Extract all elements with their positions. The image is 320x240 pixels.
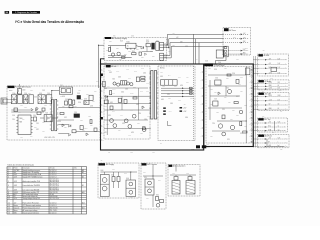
svg-text:1102: 1102 bbox=[96, 81, 99, 83]
svg-text:500 480 460: 500 480 460 bbox=[50, 196, 58, 198]
svg-text:7216: 7216 bbox=[212, 123, 215, 125]
svg-text:GND: GND bbox=[269, 85, 272, 87]
svg-text:6208: 6208 bbox=[88, 116, 91, 118]
svg-text:0V: 0V bbox=[278, 85, 280, 87]
svg-text:6444: 6444 bbox=[107, 86, 110, 88]
svg-text:+3V3: +3V3 bbox=[269, 72, 273, 74]
svg-text:3801: 3801 bbox=[233, 37, 236, 39]
resistor R3223 bbox=[234, 102, 238, 104]
svg-text:3453: 3453 bbox=[140, 133, 143, 135]
wire B3 rail 5 bbox=[212, 130, 240, 132]
svg-text:5446: 5446 bbox=[178, 77, 181, 79]
svg-text:6212: 6212 bbox=[216, 112, 219, 114]
svg-text:33V: 33V bbox=[243, 41, 246, 43]
svg-text:94,5 94,3 94,1: 94,5 94,3 94,1 bbox=[50, 189, 59, 191]
svg-text:5601: 5601 bbox=[130, 197, 133, 199]
tuner box title tag bbox=[224, 28, 236, 32]
svg-text:5,0V: 5,0V bbox=[278, 138, 281, 140]
svg-text:B3 Small Signal: B3 Small Signal bbox=[214, 65, 225, 67]
svg-text:0V: 0V bbox=[196, 59, 198, 61]
svg-text:7121: 7121 bbox=[56, 114, 59, 116]
scattered reference labels bbox=[12, 34, 243, 136]
capacitor C2455 bbox=[110, 106, 113, 110]
sub-module B3 title tag bbox=[205, 63, 226, 66]
svg-text:3462: 3462 bbox=[190, 98, 193, 100]
A20 bridge rectifier block bbox=[100, 175, 109, 197]
IC 7205 box bbox=[215, 80, 221, 85]
module box A21 degauss panel (dashed) bbox=[141, 163, 166, 209]
svg-text:+200V: +200V bbox=[14, 192, 18, 194]
power supply title tag bbox=[8, 86, 31, 89]
supply line 3 to tuner bbox=[223, 41, 249, 43]
diode D6222 bbox=[218, 92, 220, 95]
svg-text:+26V: +26V bbox=[183, 108, 186, 110]
A5 side board title tag bbox=[258, 54, 269, 57]
A7 audio board supply row +26V bbox=[253, 82, 288, 84]
supply line 1 to tuner bbox=[223, 33, 249, 35]
svg-text:3207b: 3207b bbox=[84, 128, 88, 130]
svg-text:7445: 7445 bbox=[112, 79, 115, 81]
svg-text:2110: 2110 bbox=[12, 119, 15, 121]
svg-text:14: 14 bbox=[8, 208, 10, 210]
A20 stub wires bbox=[105, 172, 131, 180]
A10 CRT panel supply row +12V bbox=[253, 99, 288, 101]
wire TC rail 2 bbox=[108, 55, 126, 57]
svg-text:5445: 5445 bbox=[160, 76, 163, 78]
fuse 1100 bbox=[17, 86, 25, 94]
A21 vertical wire top bbox=[152, 165, 154, 179]
wire B3 rail 3 bbox=[208, 85, 246, 87]
resistor R3449 bbox=[133, 97, 137, 99]
svg-text:6112: 6112 bbox=[36, 129, 39, 131]
capacitor C2224 bbox=[222, 115, 225, 119]
mains input connector bbox=[1, 98, 7, 104]
svg-text:2105: 2105 bbox=[47, 93, 50, 95]
svg-text:6600: 6600 bbox=[101, 170, 104, 172]
svg-text:6446: 6446 bbox=[120, 115, 123, 117]
A12 internal wire bbox=[273, 121, 275, 131]
svg-text:5441: 5441 bbox=[128, 78, 131, 80]
svg-text:Tabela das tensões de alimenta: Tabela das tensões de alimentação bbox=[7, 164, 34, 167]
connector 1752 bbox=[160, 53, 168, 60]
resistor R3440 bbox=[103, 81, 106, 87]
distribution box A5 side board (dashed) bbox=[258, 54, 289, 76]
svg-text:7521: 7521 bbox=[118, 52, 121, 54]
svg-text:2104: 2104 bbox=[94, 91, 97, 93]
A21 rail wire bbox=[143, 175, 163, 177]
svg-text:5200: 5200 bbox=[50, 97, 53, 99]
svg-text:12: 12 bbox=[8, 202, 10, 204]
svg-text:3442: 3442 bbox=[109, 72, 112, 74]
transistor Q7451 bbox=[113, 124, 117, 128]
table multiline voltages bbox=[50, 179, 59, 191]
connector 1751 bbox=[160, 42, 168, 50]
diode D6115 in supply bbox=[62, 124, 64, 127]
svg-text:SCL: SCL bbox=[268, 126, 271, 128]
rectifier diode row 1 bbox=[161, 87, 194, 89]
power supply module box (dashed outline) bbox=[7, 86, 100, 140]
left board edge pin numbers bbox=[101, 70, 105, 142]
svg-text:6113: 6113 bbox=[20, 137, 23, 139]
capacitor C2210 bbox=[246, 68, 250, 75]
module A8 title tag bbox=[105, 37, 127, 40]
R-box row value labels bbox=[278, 58, 281, 147]
svg-text:2453: 2453 bbox=[137, 123, 140, 125]
svg-text:2206: 2206 bbox=[232, 73, 235, 75]
svg-text:+3V3: +3V3 bbox=[14, 177, 18, 179]
wire B3 vertical 3 bbox=[225, 86, 227, 96]
svg-text:2205: 2205 bbox=[86, 94, 89, 96]
svg-text:3202: 3202 bbox=[208, 68, 211, 70]
resistor R3220 bbox=[227, 74, 231, 76]
wire primary ground rail bbox=[11, 111, 44, 113]
svg-text:+200V: +200V bbox=[278, 90, 282, 92]
svg-text:6460: 6460 bbox=[160, 72, 163, 74]
A7 audio board supply row +13V bbox=[253, 88, 288, 90]
wire drop to main board node C bbox=[198, 43, 200, 64]
svg-text:2452: 2452 bbox=[122, 123, 125, 125]
A20 title tag bbox=[99, 163, 115, 166]
wire B3 vertical main bbox=[245, 67, 247, 144]
svg-text:1753: 1753 bbox=[172, 45, 175, 47]
transistor Q7225 bbox=[239, 110, 243, 114]
A14 stepped wire bbox=[267, 139, 284, 147]
svg-text:2106: 2106 bbox=[60, 96, 63, 98]
svg-text:5,0V: 5,0V bbox=[278, 122, 281, 124]
wire B3 top rail bbox=[208, 74, 246, 76]
svg-text:6106: 6106 bbox=[78, 90, 81, 92]
driver transformer T5440 bbox=[120, 81, 126, 85]
wire +5V run to connector bbox=[164, 34, 224, 45]
wire connector return drop bbox=[216, 57, 227, 64]
A20 capacitor C1 bbox=[112, 177, 115, 189]
vertical supply bus wire 2 bbox=[255, 56, 257, 148]
supply line 2 to tuner bbox=[223, 37, 249, 39]
snubber resistor R3201 bbox=[73, 100, 75, 104]
svg-text:3120: 3120 bbox=[58, 121, 61, 123]
svg-text:+5V: +5V bbox=[268, 138, 271, 140]
svg-text:I²C e Vista Geral das Tensões: I²C e Vista Geral das Tensões de Aliment… bbox=[15, 20, 84, 24]
A12 top control supply row SDA bbox=[253, 128, 286, 131]
svg-text:6117: 6117 bbox=[42, 131, 45, 133]
secondary rail wire bbox=[58, 107, 100, 109]
A20 relay block bbox=[126, 180, 136, 197]
resistor R3211 bbox=[243, 131, 247, 133]
svg-text:2602: 2602 bbox=[124, 173, 127, 175]
svg-text:6443: 6443 bbox=[118, 77, 121, 79]
svg-text:+8V: +8V bbox=[269, 58, 272, 60]
svg-text:5520: 5520 bbox=[156, 40, 159, 42]
svg-text:6461: 6461 bbox=[161, 99, 164, 101]
electrolytic capacitor C2120 bbox=[74, 114, 80, 118]
svg-text:3460: 3460 bbox=[185, 117, 188, 119]
svg-text:200 198 196: 200 198 196 bbox=[50, 192, 58, 194]
left board right edge pin numbers bbox=[201, 72, 204, 138]
svg-text:1100: 1100 bbox=[22, 90, 25, 92]
svg-text:7211: 7211 bbox=[240, 91, 243, 93]
filter capacitor C2101 bbox=[29, 95, 33, 104]
svg-text:2521: 2521 bbox=[106, 50, 109, 52]
svg-text:6450: 6450 bbox=[180, 85, 183, 87]
svg-text:+13V: +13V bbox=[183, 111, 186, 113]
A14 front panel title tag bbox=[258, 135, 272, 138]
svg-text:G2: G2 bbox=[269, 104, 271, 106]
wire B1 rail 4 bbox=[104, 103, 151, 105]
capacitor C2115 bbox=[80, 126, 83, 130]
svg-text:3102: 3102 bbox=[24, 107, 27, 109]
svg-text:6520: 6520 bbox=[120, 41, 123, 43]
svg-text:1411: 1411 bbox=[104, 132, 107, 134]
resistor R3445 bbox=[141, 76, 145, 78]
A21 resistor bbox=[156, 197, 159, 201]
transistor Q7210 bbox=[227, 89, 231, 93]
svg-text:15: 15 bbox=[8, 210, 10, 212]
svg-text:+5V: +5V bbox=[243, 33, 246, 35]
A21 title tag bbox=[142, 163, 158, 166]
mains filter choke L5100 bbox=[11, 95, 16, 104]
svg-text:5600: 5600 bbox=[126, 178, 129, 180]
wire B1 rail 2 bbox=[104, 109, 151, 111]
diode D6108 bbox=[36, 109, 38, 111]
board edge connector tag 1408 bbox=[100, 74, 103, 77]
A5 side board supply row +3V3 bbox=[253, 72, 287, 74]
svg-text:3521: 3521 bbox=[116, 48, 119, 50]
svg-text:+8V6: +8V6 bbox=[199, 46, 202, 48]
svg-text:1505: 1505 bbox=[240, 77, 243, 79]
svg-text:0V: 0V bbox=[278, 108, 280, 110]
capacitor C2221 bbox=[236, 80, 239, 84]
svg-text:3205: 3205 bbox=[80, 120, 83, 122]
svg-text:+95V +26V +13V: +95V +26V +13V bbox=[44, 137, 55, 139]
svg-text:1504: 1504 bbox=[218, 62, 221, 64]
transistor Q7448 bbox=[130, 83, 133, 86]
svg-text:2468: 2468 bbox=[178, 100, 181, 102]
svg-text:+45V: +45V bbox=[183, 104, 186, 106]
svg-text:5V6: 5V6 bbox=[113, 35, 116, 37]
module box A22 speakers (dashed) bbox=[168, 165, 200, 197]
svg-text:12,0 12,0 33,0: 12,0 12,0 33,0 bbox=[50, 198, 59, 200]
svg-text:LED: LED bbox=[280, 149, 283, 151]
svg-text:12V: 12V bbox=[280, 111, 282, 113]
svg-text:sda: sda bbox=[278, 129, 280, 131]
diode D6526 bbox=[145, 53, 147, 55]
secondary diode D6210 bbox=[69, 125, 71, 128]
capacitor C2450 bbox=[118, 98, 121, 102]
A10 CRT panel supply row GND bbox=[253, 108, 288, 110]
wire B2 L-shaped bbox=[167, 121, 171, 125]
svg-text:A8 Stand-by Supply: A8 Stand-by Supply bbox=[112, 37, 127, 40]
capacitor C2125 bbox=[94, 128, 97, 131]
svg-text:7540: 7540 bbox=[104, 62, 107, 64]
diode D6116 bbox=[86, 133, 88, 136]
A10 CRT panel title tag bbox=[258, 93, 271, 96]
svg-text:3208: 3208 bbox=[238, 84, 241, 86]
svg-text:2216: 2216 bbox=[240, 133, 243, 135]
page number box bbox=[5, 11, 10, 14]
transformer pin stubs bbox=[149, 73, 158, 118]
svg-text:26,2 25,9 25,7: 26,2 25,9 25,7 bbox=[50, 184, 59, 186]
distribution box A10 CRT panel (dashed) bbox=[258, 92, 290, 110]
svg-text:+26V: +26V bbox=[14, 185, 17, 187]
distribution box A12 top control (dashed) bbox=[257, 118, 287, 132]
svg-text:2207: 2207 bbox=[226, 78, 229, 80]
svg-text:Mains: Mains bbox=[14, 210, 18, 212]
svg-text:2214: 2214 bbox=[224, 97, 227, 99]
svg-text:5210: 5210 bbox=[230, 119, 233, 121]
A14 front panel supply row LED bbox=[253, 145, 288, 147]
A7 audio board title tag bbox=[258, 80, 271, 83]
svg-text:2451: 2451 bbox=[167, 94, 170, 96]
svg-text:6100: 6100 bbox=[39, 93, 42, 95]
transistor Q7453 bbox=[128, 125, 132, 129]
svg-text:220 - 240V~: 220 - 240V~ bbox=[50, 210, 58, 212]
coil X symbol in filter L5101 bbox=[24, 95, 28, 104]
svg-text:+8V: +8V bbox=[14, 172, 17, 174]
wire B3 rail 2 bbox=[217, 120, 246, 122]
svg-text:3207: 3207 bbox=[236, 96, 239, 98]
section header bar bbox=[12, 11, 40, 14]
svg-text:6462: 6462 bbox=[162, 86, 165, 88]
svg-text:3447: 3447 bbox=[133, 87, 136, 89]
svg-text:26,5kV: 26,5kV bbox=[50, 194, 55, 196]
svg-text:+8V: +8V bbox=[176, 37, 178, 39]
resistor R3525 bbox=[122, 57, 126, 59]
svg-text:+5V2: +5V2 bbox=[14, 174, 18, 176]
transistor Q7216 bbox=[230, 125, 234, 129]
svg-text:+8V: +8V bbox=[243, 37, 246, 39]
svg-text:3446: 3446 bbox=[146, 91, 149, 93]
capacitor C2445 bbox=[136, 77, 139, 82]
svg-text:5440: 5440 bbox=[125, 89, 128, 91]
transistor Q7445 line driver bbox=[113, 82, 116, 85]
A22 title tag bbox=[169, 165, 186, 168]
B3 labels bbox=[214, 78, 230, 142]
svg-text:3100: 3100 bbox=[12, 115, 15, 117]
svg-text:2600: 2600 bbox=[111, 175, 114, 177]
wire B3 rail bbox=[210, 95, 240, 97]
B1 component labels bbox=[108, 79, 141, 135]
svg-text:1754: 1754 bbox=[168, 51, 171, 53]
svg-text:10: 10 bbox=[8, 196, 10, 198]
svg-text:2113: 2113 bbox=[36, 123, 39, 125]
svg-text:+141V: +141V bbox=[168, 111, 172, 113]
svg-text:G2: G2 bbox=[14, 196, 16, 198]
svg-text:6455: 6455 bbox=[131, 132, 134, 134]
distribution box to tuner board (dashed) bbox=[223, 27, 251, 55]
line output transformer T5445 primary bar bbox=[151, 71, 153, 120]
filter capacitor C2461 bbox=[163, 110, 166, 112]
A12 top control title tag bbox=[258, 118, 270, 121]
wire mains neutral bbox=[7, 102, 11, 104]
svg-text:1401: 1401 bbox=[207, 147, 210, 149]
svg-text:5521: 5521 bbox=[146, 40, 149, 42]
svg-text:0,0 0,0 0,0: 0,0 0,0 0,0 bbox=[50, 213, 57, 215]
diode D6107 bbox=[31, 109, 33, 111]
page title bbox=[15, 20, 84, 24]
svg-text:3452: 3452 bbox=[106, 124, 109, 126]
svg-text:GND: GND bbox=[185, 46, 188, 48]
svg-text:GND: GND bbox=[270, 78, 273, 80]
module box A8 standby supply (dashed outline) bbox=[104, 38, 167, 61]
resistor R3124 bbox=[90, 120, 92, 124]
svg-text:13: 13 bbox=[8, 205, 10, 207]
svg-text:2443: 2443 bbox=[112, 93, 115, 95]
extra tiny reference labels pass 3 bbox=[22, 49, 247, 133]
choke L5520 bbox=[156, 42, 159, 51]
transistor Q7447 bbox=[126, 82, 129, 85]
wire standby run to connector bbox=[164, 43, 224, 56]
svg-text:6207: 6207 bbox=[74, 106, 77, 108]
sub-module B1 line deflection (dashed) bbox=[104, 66, 150, 139]
A12 top control supply row SCL bbox=[253, 126, 286, 128]
svg-text:5,0V: 5,0V bbox=[278, 63, 281, 65]
svg-text:1503: 1503 bbox=[205, 61, 208, 63]
secondary capacitor C2212 bbox=[72, 130, 76, 133]
svg-text:2116: 2116 bbox=[34, 127, 37, 129]
svg-text:3610: 3610 bbox=[156, 195, 159, 197]
T5200 pin stubs bbox=[50, 101, 59, 129]
wire drop to main board node A bbox=[192, 34, 194, 64]
wire standby rail inside module bbox=[108, 46, 141, 58]
svg-text:pins: pins bbox=[22, 119, 25, 121]
svg-text:3110: 3110 bbox=[33, 115, 36, 117]
wire drop to main board node B bbox=[195, 39, 197, 64]
mains filter choke L5101 bbox=[24, 95, 28, 104]
diode D6521 bbox=[141, 46, 144, 49]
wire junction dots bbox=[51, 44, 247, 176]
wire B1 vertical bbox=[106, 96, 108, 135]
svg-text:+13V: +13V bbox=[269, 88, 272, 90]
svg-text:3200: 3200 bbox=[78, 102, 81, 104]
svg-text:3203: 3203 bbox=[80, 99, 83, 101]
bottom edge connector tag 1400 bbox=[192, 145, 201, 150]
wire B3 rail 4 bbox=[208, 107, 242, 109]
A20 labels bbox=[101, 170, 130, 180]
A7 audio board supply row GND bbox=[253, 85, 288, 87]
svg-text:6522: 6522 bbox=[128, 51, 131, 53]
sub-module B1 title tag bbox=[106, 65, 117, 68]
transistor Q7455 bbox=[142, 128, 146, 132]
svg-text:Degauss: Degauss bbox=[14, 208, 20, 210]
svg-text:11: 11 bbox=[8, 198, 10, 200]
A14 front panel supply row +5V bbox=[253, 138, 288, 140]
rectifier diode row 3 bbox=[161, 93, 194, 95]
svg-text:+5V: +5V bbox=[268, 122, 271, 124]
svg-text:3461: 3461 bbox=[168, 98, 171, 100]
svg-text:26V: 26V bbox=[278, 82, 280, 84]
svg-text:2466: 2466 bbox=[186, 82, 189, 84]
svg-text:6445: 6445 bbox=[146, 83, 149, 85]
sub-module B2 EHT secondary (dashed) bbox=[158, 66, 195, 141]
svg-text:13V: 13V bbox=[278, 88, 280, 90]
svg-text:2454: 2454 bbox=[118, 130, 121, 132]
speaker LS1 bbox=[172, 165, 180, 195]
svg-text:+95V: +95V bbox=[14, 189, 17, 191]
IC 7220 box bbox=[213, 101, 218, 106]
resistor R3450 bbox=[142, 127, 145, 130]
svg-text:LED: LED bbox=[268, 145, 271, 147]
svg-text:5,0 5,0 5,0: 5,0 5,0 5,0 bbox=[50, 202, 57, 204]
wire P rail 3 bbox=[11, 109, 30, 111]
svg-text:6,3 6,3 6,3: 6,3 6,3 6,3 bbox=[50, 205, 57, 207]
supply line 5 to tuner bbox=[228, 52, 248, 55]
svg-text:2208: 2208 bbox=[210, 89, 213, 91]
reservoir capacitor C2105 bbox=[46, 95, 51, 104]
A5 side board supply row +5V bbox=[253, 63, 287, 65]
wire B2 vertical to edge bbox=[193, 66, 195, 141]
bridge rectifier 6100 bbox=[38, 95, 45, 104]
svg-text:6121: 6121 bbox=[64, 117, 67, 119]
